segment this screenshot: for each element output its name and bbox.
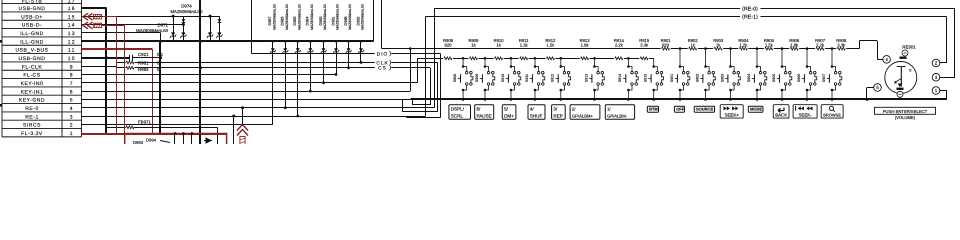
resistor R915 <box>639 57 649 61</box>
wire RE-0 pin4 <box>82 107 435 109</box>
svg-text:DSPL/: DSPL/ <box>451 107 465 112</box>
encoder pin 3 <box>932 74 940 82</box>
svg-text:OFF: OFF <box>676 106 685 111</box>
wire FL-CLK pin9 <box>82 66 118 68</box>
svg-text:0: 0 <box>909 69 911 73</box>
switch S912 <box>556 57 571 101</box>
switch S915 <box>649 58 664 100</box>
wire stub into red box x=175 <box>174 134 176 145</box>
svg-text:MAZ8068&mLS0: MAZ8068&mLS0 <box>336 4 340 30</box>
diode D994 element <box>204 138 212 143</box>
wire FL-3.3V pin1 (red bus) <box>82 133 227 135</box>
svg-text:2: 2 <box>70 123 74 129</box>
svg-text:BACK: BACK <box>775 113 787 118</box>
node RE-1 flag <box>740 13 761 20</box>
wire USB-GND vertical <box>105 8 107 134</box>
wire GND vertical <box>159 41 161 133</box>
svg-text:1: 1 <box>70 131 74 137</box>
resistor R909 <box>469 57 479 61</box>
svg-text:D971: D971 <box>158 23 169 28</box>
svg-text:FB971: FB971 <box>138 120 151 125</box>
svg-text:4: 4 <box>70 106 74 112</box>
svg-text:MAZ8068&mLS0: MAZ8068&mLS0 <box>361 4 365 30</box>
switch S905 <box>777 47 792 100</box>
svg-text:ILL-GND: ILL-GND <box>20 39 44 45</box>
svg-text:USB-D-: USB-D- <box>22 23 43 29</box>
svg-text:S914: S914 <box>618 74 622 82</box>
svg-text:FL-CS: FL-CS <box>23 73 40 79</box>
svg-text:USB-GND: USB-GND <box>19 6 46 12</box>
svg-text:MAZ8068&mLS0: MAZ8068&mLS0 <box>297 4 301 30</box>
encoder pin 2 <box>932 59 940 67</box>
svg-text:MAZ8068&mLS0: MAZ8068&mLS0 <box>171 9 204 14</box>
resistor R903 <box>713 47 723 51</box>
svg-text:D974: D974 <box>181 4 192 9</box>
svg-text:BROWSE: BROWSE <box>823 113 841 118</box>
diode matrix box right edge <box>373 0 375 41</box>
zener D971 element x=219.4 <box>216 32 222 38</box>
zener column x=183.4 <box>183 16 185 41</box>
svg-text:5: 5 <box>70 98 74 104</box>
svg-text:SOURCE: SOURCE <box>696 106 713 111</box>
svg-text:SEEK+: SEEK+ <box>725 113 740 118</box>
wire resistor chain 2 <box>382 48 860 50</box>
wire RE-0 top bus <box>434 8 955 10</box>
svg-text:S908: S908 <box>453 74 457 82</box>
wire USB-D- pin14 <box>82 24 184 26</box>
page ref arrow USB-D- <box>83 22 88 29</box>
wire USB-GND pin16 <box>82 7 107 9</box>
wire riser to bus L1 <box>412 99 414 105</box>
wire KEY-IN0 riser <box>417 58 419 82</box>
svg-text:D994: D994 <box>146 138 157 143</box>
svg-text:MAZ8068&mLS0: MAZ8068&mLS0 <box>348 4 352 30</box>
svg-text:KEY-IN0: KEY-IN0 <box>21 81 44 87</box>
red box D994 group <box>125 134 227 145</box>
wire resistor chain 1 <box>417 58 654 60</box>
wire USB-GND pin10 <box>82 57 130 59</box>
switch S903 <box>725 47 740 100</box>
resistor R901 <box>661 47 671 51</box>
svg-text:USB-GND: USB-GND <box>19 56 46 62</box>
svg-text:3.3k: 3.3k <box>640 43 649 48</box>
diode D974 element x=183.4 <box>182 19 186 22</box>
wire FL-CS pin8 <box>82 74 337 76</box>
svg-text:MAZ8068&mLS0: MAZ8068&mLS0 <box>136 28 169 33</box>
node CS label <box>375 65 392 71</box>
svg-text:S911: S911 <box>525 74 529 82</box>
wire red D- tail <box>102 25 125 27</box>
svg-text:PUSH ENTER/SELECT: PUSH ENTER/SELECT <box>883 109 928 114</box>
button label BROWSE <box>821 105 843 118</box>
resistor R908 <box>443 57 453 61</box>
resistor R914 <box>614 57 624 61</box>
svg-text:DIO: DIO <box>377 52 389 58</box>
wire SIRCS pin2 <box>82 124 273 126</box>
switch S911 <box>530 57 545 101</box>
svg-text:SCRL: SCRL <box>451 113 464 118</box>
node CLK label <box>375 59 392 65</box>
svg-text:BTM: BTM <box>649 106 658 111</box>
wire RE-0 riser <box>434 8 436 108</box>
switch S914 <box>623 57 638 101</box>
svg-text:C921: C921 <box>138 52 149 57</box>
svg-text:10: 10 <box>68 56 76 62</box>
ferrite bead FB971 <box>107 127 126 129</box>
svg-text:MODE: MODE <box>750 106 762 111</box>
svg-text:13: 13 <box>68 31 76 37</box>
svg-text:S909: S909 <box>475 74 479 82</box>
svg-text:SHUF: SHUF <box>530 113 543 118</box>
svg-text:D993: D993 <box>133 140 144 144</box>
svg-text:RE-1: RE-1 <box>25 114 39 120</box>
button label 1/GP/ALBM- <box>605 105 634 120</box>
svg-text:ILL-GND: ILL-GND <box>20 31 44 37</box>
svg-text:12: 12 <box>68 39 76 45</box>
diode matrix box left edge <box>251 0 253 41</box>
vertical thick net x=200 <box>199 0 201 144</box>
button label BTM <box>647 106 658 112</box>
svg-text:⟨RE-1⟩: ⟨RE-1⟩ <box>742 13 758 20</box>
svg-text:0.1: 0.1 <box>157 52 164 57</box>
wire KEY-IN1 riser <box>410 49 412 91</box>
zener column x=210.0 <box>210 16 212 41</box>
svg-text:11: 11 <box>68 48 76 54</box>
svg-text:MAZ8068&mLS0: MAZ8068&mLS0 <box>310 4 314 30</box>
wire CS drop <box>430 68 432 105</box>
svg-text:S902: S902 <box>695 74 699 82</box>
svg-text:MAZ8068&mLS0: MAZ8068&mLS0 <box>323 4 327 30</box>
wire GND bus <box>82 40 374 42</box>
svg-text:GP/ALBM-: GP/ALBM- <box>607 113 628 118</box>
wire stub x=242.5 <box>242 108 244 126</box>
svg-text:S907: S907 <box>822 74 826 82</box>
switch S907 <box>827 47 842 100</box>
svg-text:CS: CS <box>378 66 387 72</box>
wire RE-1 riser <box>425 16 427 116</box>
wire KEY-GND bus thick <box>411 98 947 100</box>
encoder pin 5 <box>874 84 882 92</box>
resistor R902 <box>688 47 698 51</box>
encoder pin 4 <box>883 56 891 64</box>
resistor R911 <box>519 57 529 61</box>
svg-text:3.3k: 3.3k <box>837 43 846 48</box>
wire CLK drop <box>437 62 439 111</box>
wire top feed chain2 <box>381 0 383 49</box>
button label SOURCE <box>694 106 714 112</box>
button label 6/PAUSE <box>475 105 494 120</box>
button label SEEK+ <box>720 105 743 118</box>
svg-text:S905: S905 <box>772 74 776 82</box>
button label 4/SHUF <box>528 105 545 120</box>
svg-text:MAZ8068&mLS0: MAZ8068&mLS0 <box>272 4 276 30</box>
rotary encoder RE901 <box>874 45 940 98</box>
svg-text:⟨RE-0⟩: ⟨RE-0⟩ <box>742 5 758 12</box>
wire ILL-GND pin13 <box>82 32 161 34</box>
svg-text:820: 820 <box>445 43 453 48</box>
wire pin3 to RE-0 <box>940 77 955 79</box>
svg-text:S913: S913 <box>584 74 588 82</box>
node DIO label <box>375 50 392 56</box>
wire USB-D+ pin15 <box>82 16 220 18</box>
resistor R906 <box>789 47 799 51</box>
svg-text:9: 9 <box>70 64 74 70</box>
svg-text:1.2k: 1.2k <box>520 43 529 48</box>
wire V-BUS vertical (red) <box>152 49 154 133</box>
wire pin2 to RE-1 <box>940 62 946 64</box>
wire red D+ tail <box>102 16 117 18</box>
wire CLK net <box>135 62 438 64</box>
zener D971 element x=173.1 <box>170 32 176 38</box>
svg-text:GP/ALBM+: GP/ALBM+ <box>572 113 594 118</box>
svg-text:1.8k: 1.8k <box>581 43 590 48</box>
svg-text:S903: S903 <box>720 74 724 82</box>
wire riser to bus L2 <box>402 99 404 111</box>
svg-text:2.2k: 2.2k <box>816 43 825 48</box>
svg-text:S912: S912 <box>551 74 555 82</box>
svg-text:S901: S901 <box>670 74 674 82</box>
svg-text:8: 8 <box>70 73 74 79</box>
svg-text:USB-D+: USB-D+ <box>21 14 43 20</box>
svg-text:KEY-IN1: KEY-IN1 <box>21 89 44 95</box>
wire push contact to bus <box>900 97 902 99</box>
node RE-0 flag <box>740 5 761 12</box>
svg-text:FL-CLK: FL-CLK <box>22 64 43 70</box>
button label BACK <box>773 105 789 118</box>
wire RE-1 top bus <box>426 16 946 18</box>
svg-text:FL-STB: FL-STB <box>22 0 43 5</box>
svg-text:7: 7 <box>70 81 74 87</box>
switch S909 <box>480 57 495 101</box>
switch S913 <box>589 57 604 101</box>
encoder pin 1 <box>932 87 940 95</box>
switch S906 <box>802 47 817 100</box>
svg-text:KEY-GND: KEY-GND <box>19 98 45 104</box>
label PUSH ENTER/SELECT <box>875 107 936 120</box>
wire KEY-IN1 pin6 <box>82 91 411 93</box>
svg-text:17: 17 <box>68 0 76 5</box>
switch S901 <box>675 47 690 100</box>
wire stub into red box x=183.4 <box>183 134 185 145</box>
switch S902 <box>700 47 715 100</box>
svg-text:RE-0: RE-0 <box>25 106 39 112</box>
wire pin1 down <box>940 90 947 92</box>
wire chain2 wrap to pin4 <box>859 41 861 49</box>
wire FB net into red box x=217 <box>217 127 219 144</box>
diode D974 element x=219.4 <box>218 19 222 22</box>
button label DSPL/SCRL <box>449 105 471 120</box>
zener column x=173.1 <box>173 16 175 41</box>
button label 5/DM+ <box>502 105 516 120</box>
wire RE-1 pin3 <box>82 116 426 118</box>
svg-text:SIRCS: SIRCS <box>23 123 41 129</box>
svg-text:1.5k: 1.5k <box>546 43 555 48</box>
wire KEY-GND pin5 bus <box>82 99 411 101</box>
svg-text:S906: S906 <box>797 74 801 82</box>
resistor R904 <box>738 47 748 51</box>
svg-text:S910: S910 <box>501 74 505 82</box>
wire stub into red box x=191.9 <box>191 134 193 145</box>
svg-text:2.2k: 2.2k <box>615 43 624 48</box>
svg-text:(VOLUME): (VOLUME) <box>895 115 916 120</box>
svg-text:DM+: DM+ <box>504 113 514 118</box>
svg-text:6: 6 <box>70 89 74 95</box>
switch S910 <box>506 57 521 101</box>
button label MODE <box>748 106 763 112</box>
wire pin5 to bus <box>867 87 874 89</box>
svg-text:S904: S904 <box>747 74 751 82</box>
wire stub left edge ILL <box>0 40 2 43</box>
button label 3/REP <box>552 105 566 120</box>
svg-text:1.5k: 1.5k <box>765 43 774 48</box>
wire DIO from matrix box <box>251 41 253 53</box>
resistor R910 <box>494 57 504 61</box>
page ref arrow up (red) <box>237 125 248 131</box>
button label 2/GP/ALBM+ <box>570 105 600 120</box>
zener D971 element x=183.4 <box>180 32 186 38</box>
svg-text:1.8k: 1.8k <box>790 43 799 48</box>
svg-text:3: 3 <box>70 114 74 120</box>
svg-text:15: 15 <box>68 14 76 20</box>
svg-text:REP: REP <box>553 113 562 118</box>
svg-text:14: 14 <box>68 23 76 29</box>
svg-text:S915: S915 <box>644 74 648 82</box>
resistor R905 <box>764 47 774 51</box>
svg-text:SEEK-: SEEK- <box>799 113 813 118</box>
connector table CNP901 <box>2 0 82 137</box>
svg-text:1.2k: 1.2k <box>739 43 748 48</box>
resistor R907 <box>815 47 825 51</box>
button label SEEK- <box>793 105 817 118</box>
switch S908 <box>458 57 473 101</box>
button label OFF <box>674 106 684 112</box>
resistor R908 <box>836 47 846 51</box>
svg-text:PAUSE: PAUSE <box>477 113 492 118</box>
wire USB_V-BUS pin11 (red) <box>82 48 153 50</box>
resistor R912 <box>545 57 555 61</box>
wire CS net <box>135 67 431 69</box>
capacitor C921 <box>129 55 131 61</box>
resistor R983 <box>117 67 126 69</box>
svg-text:RE901: RE901 <box>902 45 916 50</box>
resistor R981 <box>117 62 126 64</box>
svg-text:FL-3.3V: FL-3.3V <box>21 131 43 137</box>
wire DIO lower segment <box>406 117 440 119</box>
switch S904 <box>752 47 767 100</box>
page ref arrow USB-D+ <box>83 13 88 20</box>
zener column x=219.4 <box>219 16 221 41</box>
wire ILL-GND riser <box>160 33 162 41</box>
resistor R913 <box>580 57 590 61</box>
svg-text:16: 16 <box>68 6 76 12</box>
zener D971 element x=210.0 <box>207 32 213 38</box>
wire stub left edge RE <box>0 104 2 107</box>
wire stub x=233.75 <box>233 116 235 144</box>
svg-text:MAZ8068&mLS0: MAZ8068&mLS0 <box>285 4 289 30</box>
svg-text:820: 820 <box>662 43 670 48</box>
wire KEY-IN0 pin7 <box>82 82 418 84</box>
svg-text:USB_V-BUS: USB_V-BUS <box>15 48 48 54</box>
